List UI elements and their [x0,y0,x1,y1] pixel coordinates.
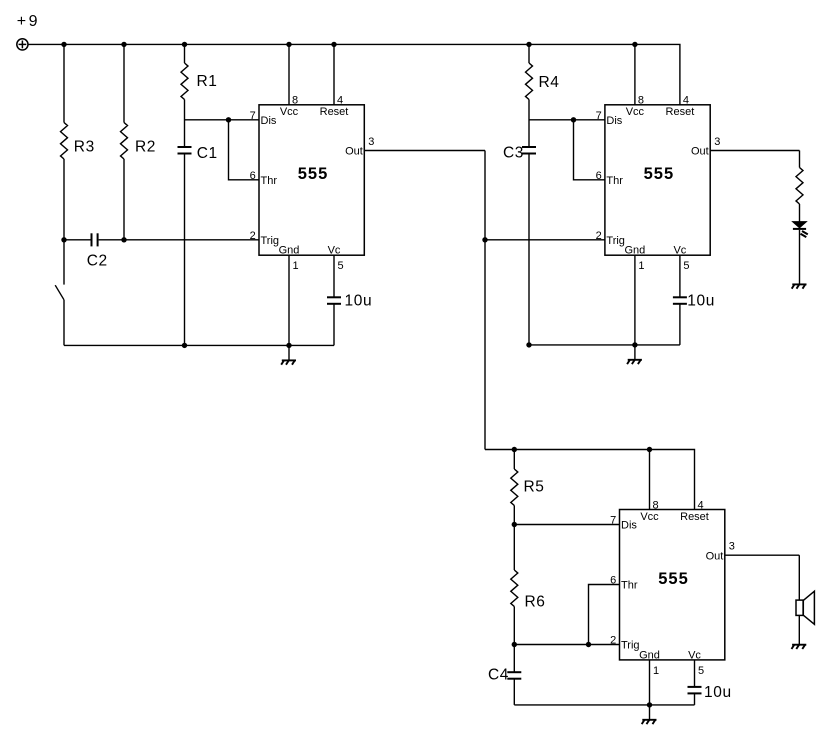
svg-text:1: 1 [293,260,299,272]
svg-text:Reset: Reset [680,511,709,523]
wire trigger U2 [485,239,605,241]
node R2-trigger [121,237,126,242]
node rail-R2 [121,42,126,47]
wire U1 Thr jog [229,120,260,180]
svg-text:6: 6 [596,170,602,182]
capacitor 10u U2 [673,296,687,298]
wire R2 top lead [123,44,125,122]
speaker SP1 driver [796,600,803,615]
node trigger-Thr junction U3 [586,642,591,647]
svg-text:555: 555 [644,165,675,183]
node rail-R3 [61,42,66,47]
wire R6 top lead [513,525,515,571]
wire U3 pin1 gnd [649,660,651,705]
wire 10u U2 to rail [679,304,681,345]
capacitor C3 [522,146,536,148]
svg-text:3: 3 [729,541,735,553]
wire U2 out [710,150,799,152]
wire trigger right [99,239,259,241]
wire link U1out down [484,151,486,450]
node C1-ground rail [182,343,187,348]
node pin1-rail U3 [647,702,652,707]
wire switch bottom [63,300,65,346]
resistor R5 [511,469,518,505]
svg-text:Vcc: Vcc [280,106,299,118]
wire U2 pin5 lead [679,255,681,297]
svg-text:Thr: Thr [606,175,623,187]
wire U3 out [725,554,800,556]
wire C3 to ground rail 2 [528,154,530,345]
svg-text:C1: C1 [197,145,218,162]
svg-text:Gnd: Gnd [279,245,300,257]
ground U1 [282,359,296,361]
wire 10u U3 to rail [694,694,696,705]
wire R3 bottom lead [63,159,65,240]
svg-text:555: 555 [298,165,329,183]
node pin1-rail U2 [632,342,637,347]
svg-text:8: 8 [653,499,659,511]
resistor R2 [121,123,128,160]
svg-text:R5: R5 [524,479,545,496]
LED D1 triangle [793,222,806,228]
svg-text:4: 4 [698,499,704,511]
svg-text:Thr: Thr [261,175,278,187]
svg-text:Vcc: Vcc [640,511,659,523]
svg-text:Gnd: Gnd [625,245,646,257]
svg-text:C2: C2 [87,253,108,270]
node R3-trigger [61,237,66,242]
wire U1 pin5 lead [333,255,335,297]
svg-text:R2: R2 [135,139,156,156]
wire U3 Dis [514,524,619,526]
wire U2 pin1 gnd [634,255,636,345]
node Dis-Thr junction U2 [571,117,576,122]
power supply +9V terminal [17,39,28,50]
wire ground stub U2 [634,345,636,360]
node pin1-rail U1 [286,343,291,348]
node link3-R5 [512,447,517,452]
wire C4 top lead [513,645,515,673]
capacitor C2 [91,233,93,246]
svg-text:5: 5 [338,260,344,272]
ground U2 [628,359,642,361]
svg-text:R4: R4 [539,74,560,91]
svg-text:R1: R1 [197,73,218,90]
ground U3 [642,719,656,721]
svg-text:10u: 10u [704,684,732,701]
svg-text:3: 3 [714,136,720,148]
svg-text:8: 8 [292,95,298,107]
ground speaker [792,644,806,646]
node link-trigger2 [482,237,487,242]
capacitor 10u U3 [688,686,702,688]
svg-text:1: 1 [638,260,644,272]
svg-text:10u: 10u [687,292,715,309]
wire C4 bottom lead [513,679,515,705]
svg-text:2: 2 [596,230,602,242]
wire R3 top lead [63,44,65,122]
svg-text:Vc: Vc [688,649,701,661]
svg-text:7: 7 [596,110,602,122]
svg-text:Vc: Vc [673,245,686,257]
switch S1 blade [55,285,64,300]
svg-text:Out: Out [345,146,363,158]
wire 10u to rail [333,304,335,345]
svg-text:Vc: Vc [328,245,341,257]
svg-text:Thr: Thr [621,580,638,592]
svg-text:Trig: Trig [621,640,640,652]
wire R1 top lead [184,44,186,63]
wire R6 bottom lead [513,607,515,645]
node rail-U1 pin8 [286,42,291,47]
wire ground stub U1 [288,345,290,360]
wire U3 Thr jog [589,585,620,645]
svg-text:2: 2 [610,635,616,647]
node Dis-Thr junction U1 [226,117,231,122]
svg-text:6: 6 [250,170,256,182]
node rail-U2 pin8 [632,42,637,47]
svg-text:Out: Out [706,550,724,562]
wire U1 pin1 gnd [288,255,290,345]
wire U2 Dis [529,119,605,121]
wire R5 top lead [513,450,515,470]
node rail-R4 [526,42,531,47]
wire link3 horizontal [485,450,695,510]
capacitor 10u U1 [327,296,341,298]
svg-text:Dis: Dis [621,520,637,532]
wire U3 pin8 [649,450,651,510]
svg-text:3: 3 [368,136,374,148]
svg-text:Vcc: Vcc [626,106,645,118]
svg-text:Gnd: Gnd [639,649,660,661]
svg-text:C3: C3 [503,145,524,162]
wire LED to ground [799,230,801,284]
ground LED [792,283,806,285]
LED D1 cathode bar [793,228,806,230]
svg-text:Reset: Reset [666,106,695,118]
svg-text:Trig: Trig [606,235,625,247]
node R6-trigger U3 [512,642,517,647]
svg-text:5: 5 [683,260,689,272]
node link3-pin8 U3 [647,447,652,452]
wire R4 to C3 [528,100,530,148]
svg-text:4: 4 [683,95,689,107]
svg-text:R3: R3 [74,139,95,156]
wire R2 bottom lead [123,159,125,240]
svg-text:1: 1 [653,665,659,677]
svg-text:7: 7 [250,110,256,122]
resistor R4 [526,63,533,100]
wire speaker to ground [798,615,800,644]
wire speaker branch [798,555,800,600]
wire U2 pin8 vcc [634,44,636,104]
wire U1 pin4 reset [333,44,335,104]
wire U2 Thr jog [574,120,605,180]
node C3-rail2 [526,342,531,347]
wire ground rail 3 [514,704,694,706]
node rail-R1 [182,42,187,47]
op-amp U2 555 timer [605,105,710,255]
wire LED branch top [799,151,801,168]
op-amp U3 555 timer [620,510,725,660]
wire C1 to ground rail [184,154,186,346]
op-amp U1 555 timer [259,105,364,255]
wire ground rail 2 [529,344,680,346]
wire R4 top lead [528,44,530,63]
capacitor C4 [507,671,521,673]
resistor R1 [181,63,188,100]
svg-text:+9: +9 [17,13,40,30]
wire trigger U3 [514,644,619,646]
resistor R3 [61,123,68,160]
capacitor C1 [178,146,192,148]
wire resistor to LED [799,204,801,222]
wire U1 Dis [185,119,260,121]
wire U1 out [364,150,485,152]
wire top +9V rail [28,44,680,104]
svg-text:2: 2 [250,230,256,242]
svg-text:R6: R6 [525,594,546,611]
svg-text:Out: Out [691,146,709,158]
wire ground rail 1 [64,344,334,346]
speaker SP1 cone [803,591,814,624]
svg-text:Dis: Dis [261,115,277,127]
svg-text:555: 555 [658,570,689,588]
resistor R7 LED series [796,168,803,205]
wire R1 to C1 [184,100,186,148]
svg-text:8: 8 [638,95,644,107]
svg-text:Dis: Dis [606,115,622,127]
resistor R6 [511,570,518,607]
wire R5 bottom lead [513,506,515,525]
wire U3 pin5 lead [694,660,696,687]
svg-text:4: 4 [337,95,343,107]
wire ground stub U3 [649,705,651,720]
svg-text:5: 5 [698,665,704,677]
wire switch top [63,240,65,285]
node R5-Dis U3 [512,522,517,527]
svg-text:7: 7 [610,515,616,527]
svg-text:Trig: Trig [261,235,280,247]
svg-text:6: 6 [610,575,616,587]
LED D1 light arrows [802,231,808,234]
wire U1 pin8 vcc [288,44,290,104]
svg-text:10u: 10u [345,292,373,309]
wire trigger left [64,239,91,241]
svg-text:Reset: Reset [320,106,349,118]
node rail-U1 pin4 [331,42,336,47]
svg-text:C4: C4 [488,666,509,683]
